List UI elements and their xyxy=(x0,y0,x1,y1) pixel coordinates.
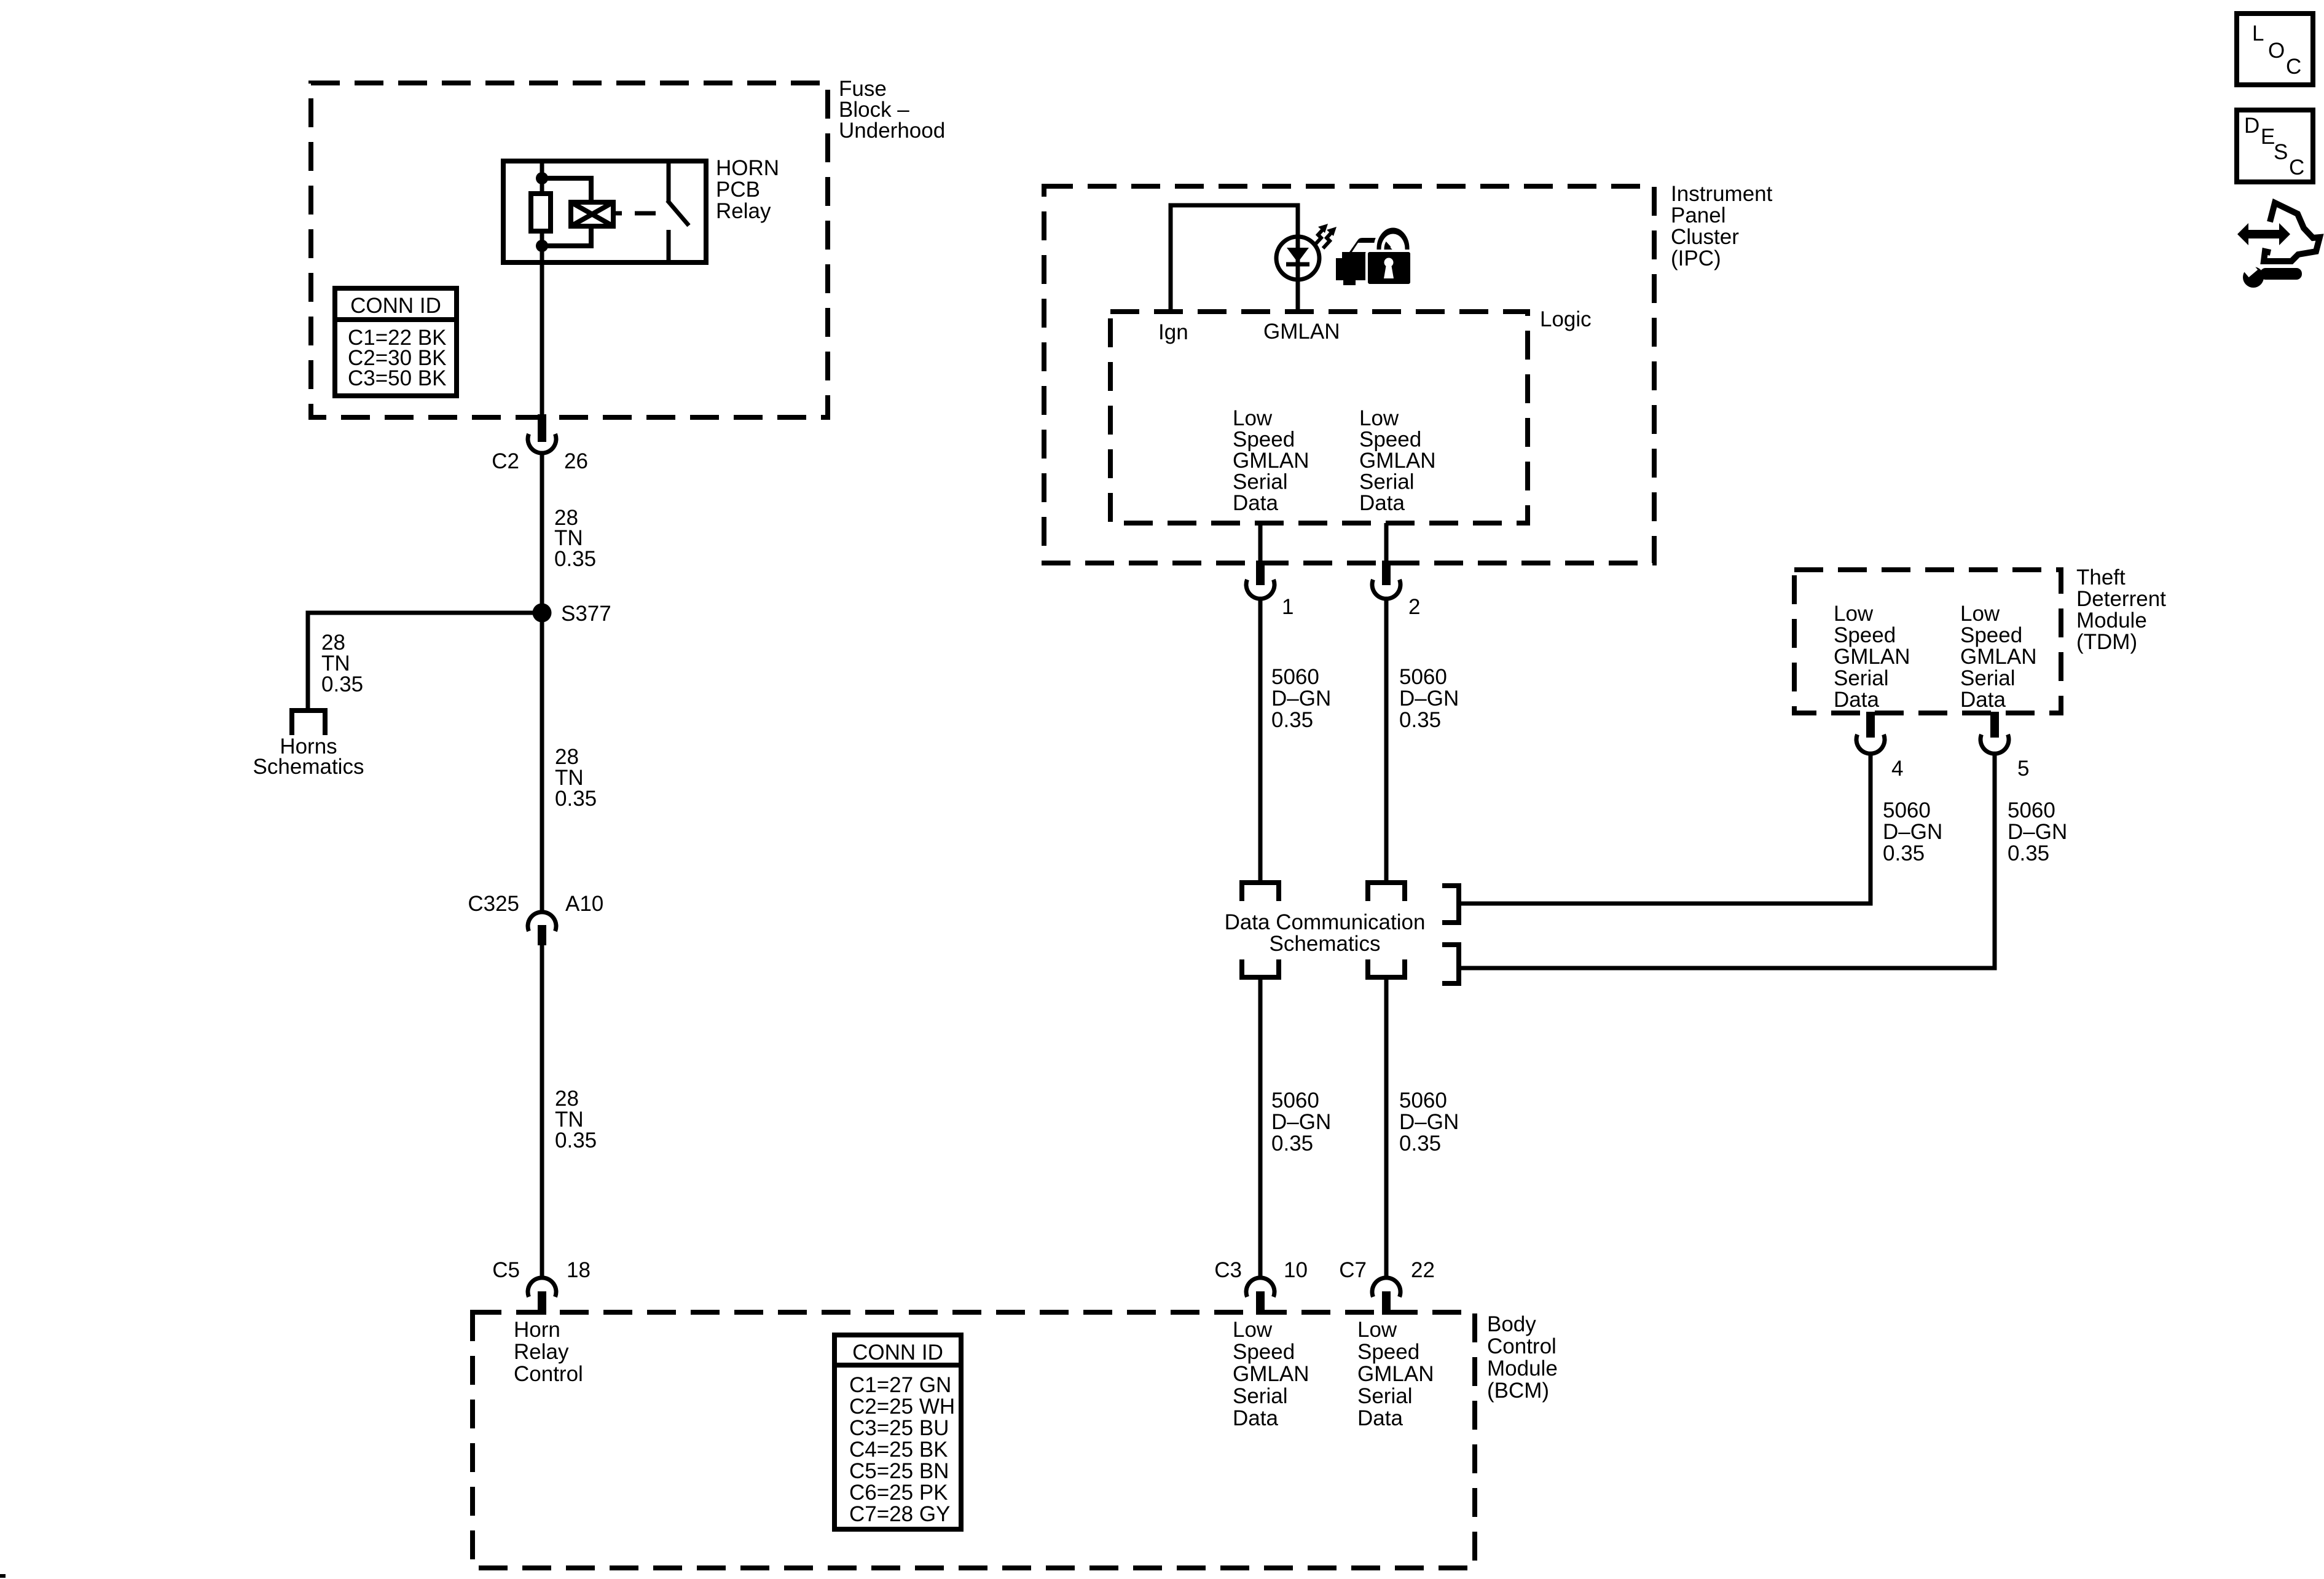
Logic label xyxy=(1540,307,1592,331)
svg-text:A10: A10 xyxy=(565,892,603,916)
relay K1 HORN PCB Relay box xyxy=(503,161,706,262)
TDM dashed box xyxy=(1794,570,2061,713)
wire TDM pin4 run xyxy=(1459,753,1871,904)
connector C7 dome at BCM xyxy=(1372,1278,1400,1297)
wire TDM pin5 run xyxy=(1459,753,1995,968)
LED diode triangle xyxy=(1287,248,1309,262)
wire S377 to C325 xyxy=(540,613,544,912)
connector C3 labels xyxy=(1214,1258,1308,1282)
DCS fork upper right xyxy=(1368,883,1405,901)
wire coil loop xyxy=(542,178,591,246)
svg-text:C325: C325 xyxy=(468,892,519,916)
svg-text:L: L xyxy=(2252,22,2264,45)
wire actuation dash xyxy=(635,211,656,216)
svg-text:S: S xyxy=(2274,140,2288,164)
wire relay to C2 xyxy=(540,262,544,417)
connector pin 5 stub xyxy=(1990,712,1999,738)
svg-text:O: O xyxy=(2268,39,2285,63)
svg-text:CONN ID: CONN ID xyxy=(852,1341,943,1364)
connector C2 cup xyxy=(528,434,556,453)
wire C2 to S377 xyxy=(540,453,544,613)
navigation double arrow icon xyxy=(2237,223,2290,245)
connector pin 4 cup xyxy=(1856,734,1885,754)
connector C7 labels xyxy=(1339,1258,1435,1282)
TDM internal label (pin4) xyxy=(1834,602,1910,712)
connector C2 pin 26 stub xyxy=(538,414,546,442)
relay switch contact upper xyxy=(667,161,671,202)
BCM CONN ID text xyxy=(849,1341,955,1526)
node junction dot lower xyxy=(536,240,548,252)
connector C3 dome at BCM xyxy=(1246,1278,1274,1297)
wire IPC pin1 internal xyxy=(1258,523,1263,562)
svg-text:C: C xyxy=(2289,156,2304,179)
BCM label xyxy=(1487,1312,1558,1403)
connector pin 1 cup xyxy=(1246,580,1274,599)
connector C325 labels xyxy=(468,892,603,916)
pin 2 label xyxy=(1408,595,1420,619)
wire relay internal vertical xyxy=(540,161,544,262)
pin 1 label xyxy=(1282,595,1294,619)
connector C5 pin 18 stub xyxy=(538,1291,546,1315)
connector C325 pin A10 stub xyxy=(538,925,546,945)
off-page fork to Horns Schematics xyxy=(292,711,325,735)
splice S377 label xyxy=(561,602,611,626)
wire IPC pin2 internal xyxy=(1384,523,1389,562)
connector C5 dome at BCM xyxy=(528,1278,556,1297)
BCM internal label (C3) xyxy=(1233,1318,1309,1430)
connector C5 labels xyxy=(492,1258,591,1282)
IPC label xyxy=(1671,182,1773,270)
svg-text:GMLAN: GMLAN xyxy=(1263,320,1340,344)
wire label 28 TN 0.35 (above C325) xyxy=(555,745,597,811)
relay switch blade xyxy=(667,200,689,226)
node junction dot upper xyxy=(536,172,548,184)
connector pin 1 stub xyxy=(1256,561,1265,585)
DCS fork upper left xyxy=(1242,883,1279,901)
svg-text:10: 10 xyxy=(1284,1258,1308,1282)
wrench icon xyxy=(2243,264,2302,288)
Horns Schematics label xyxy=(253,734,364,779)
svg-text:5: 5 xyxy=(2017,757,2029,781)
Logic dashed box xyxy=(1110,312,1528,523)
DCS bracket lower (to TDM pin 5) xyxy=(1442,945,1459,983)
wire label 5060 D-GN 0.35 (pin1) xyxy=(1271,665,1331,732)
LOC reference box xyxy=(2237,14,2313,85)
svg-text:C5: C5 xyxy=(492,1258,520,1282)
wire label 28 TN 0.35 (branch) xyxy=(321,631,363,696)
svg-text:2: 2 xyxy=(1408,595,1420,619)
svg-text:C1=27 GNC2=25 WHC3=25 BUC4=25: C1=27 GNC2=25 WHC3=25 BUC4=25 BKC5=25 BN… xyxy=(849,1373,955,1526)
wire DCS to BCM C3 xyxy=(1258,977,1263,1279)
wire label 28 TN 0.35 (below C2) xyxy=(554,506,596,571)
IPC dashed box xyxy=(1044,186,1654,563)
DCS fork lower right xyxy=(1368,959,1405,977)
BCM CONN ID table xyxy=(834,1335,961,1529)
svg-text:26: 26 xyxy=(564,449,588,473)
TDM label xyxy=(2076,565,2166,654)
security car with lock icon xyxy=(1336,226,1411,285)
fuse block CONN ID table xyxy=(335,288,457,396)
connector pin 4 stub xyxy=(1866,712,1875,738)
indicator LED circle xyxy=(1276,237,1319,280)
Ign label xyxy=(1158,320,1188,344)
svg-text:22: 22 xyxy=(1411,1258,1435,1282)
BCM dashed box xyxy=(473,1312,1475,1568)
wire label 5060 D-GN 0.35 (C7) xyxy=(1399,1089,1459,1156)
svg-text:C2: C2 xyxy=(492,449,519,473)
relay switch contact lower xyxy=(667,230,671,260)
pin 5 label xyxy=(2017,757,2029,781)
IPC internal label Low Speed GMLAN Serial Data (pin1) xyxy=(1233,406,1309,515)
svg-text:C1=22 BKC2=30 BKC3=50 BK: C1=22 BKC2=30 BKC3=50 BK xyxy=(348,326,447,390)
LED wire through xyxy=(1296,237,1300,312)
svg-text:Ign: Ign xyxy=(1158,320,1188,344)
fuse block CONN ID text xyxy=(348,294,447,390)
DCS fork lower left xyxy=(1242,959,1279,977)
DCS bracket upper (to TDM pin 4) xyxy=(1442,886,1459,923)
wire label 5060 D-GN 0.35 (pin2) xyxy=(1399,665,1459,732)
pin 4 label xyxy=(1891,757,1903,781)
LED diode bar xyxy=(1286,262,1309,267)
resistor relay coil suppression xyxy=(531,194,551,231)
svg-text:Logic: Logic xyxy=(1540,307,1592,331)
DESC reference box xyxy=(2237,110,2313,182)
connector pin 5 cup xyxy=(1981,734,2009,754)
wire label 5060 D-GN 0.35 (pin5) xyxy=(2008,798,2067,865)
connector pin 2 stub xyxy=(1382,561,1391,585)
wire label 5060 D-GN 0.35 (C3) xyxy=(1271,1089,1331,1156)
navigation outline pointer icon xyxy=(2264,203,2320,261)
wire label 5060 D-GN 0.35 (pin4) xyxy=(1883,798,1942,865)
wire pin2 to DCS fork xyxy=(1384,598,1389,880)
wire coil to switch lead xyxy=(613,211,622,216)
svg-text:1: 1 xyxy=(1282,595,1294,619)
IPC internal label Low Speed GMLAN Serial Data (pin2) xyxy=(1359,406,1435,515)
wire label 28 TN 0.35 (below C325) xyxy=(555,1087,597,1152)
relay label xyxy=(716,156,779,223)
connector C2 labels xyxy=(492,449,588,473)
relay coil box with X xyxy=(571,202,613,226)
TDM internal label (pin5) xyxy=(1960,602,2036,712)
svg-text:C7: C7 xyxy=(1339,1258,1367,1282)
connector pin 2 cup xyxy=(1372,580,1400,599)
LED light ray arrows xyxy=(1314,224,1337,248)
wire C325 to C5 xyxy=(540,945,544,1279)
svg-text:CONN ID: CONN ID xyxy=(350,294,441,318)
svg-text:18: 18 xyxy=(567,1258,591,1282)
svg-text:E: E xyxy=(2261,125,2275,149)
wire Ign feed xyxy=(1171,205,1298,312)
connector C3 pin 10 stub xyxy=(1256,1291,1265,1315)
wire pin1 to DCS fork xyxy=(1258,598,1263,880)
connector C7 pin 22 stub xyxy=(1382,1291,1391,1315)
Data Communication Schematics label xyxy=(1225,910,1426,956)
svg-text:4: 4 xyxy=(1891,757,1903,781)
BCM internal label (C7) xyxy=(1357,1318,1434,1430)
connector C325 dome xyxy=(528,912,556,931)
fuse block label xyxy=(839,77,945,143)
GMLAN label xyxy=(1263,320,1340,344)
svg-text:C: C xyxy=(2286,55,2301,79)
fuse block underhood dashed box xyxy=(311,83,828,417)
svg-text:D: D xyxy=(2244,114,2259,138)
page corner artifact xyxy=(0,1574,6,1578)
wire branch to horns xyxy=(308,613,542,711)
svg-text:C3: C3 xyxy=(1214,1258,1242,1282)
svg-text:S377: S377 xyxy=(561,602,611,626)
Horn Relay Control label xyxy=(514,1318,583,1386)
splice S377 xyxy=(533,604,552,623)
wire DCS to BCM C7 xyxy=(1384,977,1389,1279)
